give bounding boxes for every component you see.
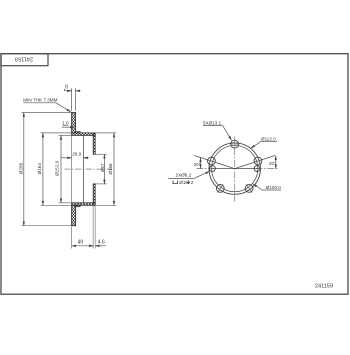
label dia 100.0 with leader	[253, 184, 282, 190]
dim 49	[72, 239, 94, 245]
svg-text:20°: 20°	[269, 161, 276, 166]
dim dia 166 (hat face)	[95, 133, 116, 205]
hat flange lower section	[72, 203, 96, 206]
left face edge line through hat interior	[71, 135, 73, 202]
centerline axis	[65, 168, 112, 170]
dim 4.6	[90, 239, 106, 245]
hat flange upper section	[72, 133, 96, 136]
svg-text:Ø258: Ø258	[19, 162, 24, 174]
note MIN THK 7.3MM with leader	[23, 98, 71, 112]
dim 26.9	[61, 152, 89, 158]
hat interior edge line	[82, 135, 84, 202]
bolt hole lower-right	[245, 185, 253, 193]
radial line 162 deg left	[194, 156, 234, 169]
svg-text:5XØ13.1: 5XØ13.1	[203, 120, 222, 125]
radial tick bottom-right hole	[246, 184, 252, 192]
svg-text:2: 2	[191, 180, 194, 185]
svg-text:Ø166: Ø166	[108, 163, 113, 175]
svg-text:Ø15: Ø15	[179, 180, 188, 185]
title box top-left	[1, 54, 48, 66]
friction ring lower section	[72, 205, 76, 225]
label 5X dia 13.1 with leader	[203, 120, 232, 140]
vertical centerline	[234, 136, 236, 201]
bolt hole upper-right	[254, 157, 262, 165]
bolt hole lower-left	[216, 185, 224, 193]
dim thickness 9	[65, 84, 81, 111]
bolt hole top	[231, 140, 239, 148]
svg-text:9: 9	[65, 84, 68, 90]
dim dia 258	[19, 113, 72, 226]
svg-text:2XØ9.2: 2XØ9.2	[176, 172, 192, 177]
dim dia 152.9	[55, 135, 72, 202]
svg-text:Ø152.9: Ø152.9	[55, 160, 60, 176]
label 2X dia 9.2 counterbore dia 15 depth 2 with leader	[168, 171, 210, 185]
svg-text:MIN THK 7.3MM: MIN THK 7.3MM	[23, 98, 57, 103]
small hole right	[254, 166, 260, 172]
svg-text:241159: 241159	[15, 55, 33, 61]
tick through top hole	[230, 143, 239, 145]
drawing frame border	[1, 54, 348, 295]
hat mounting plate lower section	[93, 184, 95, 205]
horizontal centerline	[196, 168, 278, 170]
svg-text:241159: 241159	[315, 284, 333, 290]
circle dia 100	[212, 146, 258, 192]
svg-text:Ø112.0: Ø112.0	[261, 136, 276, 141]
fillet step lower junction	[76, 205, 81, 207]
dim 1.8	[62, 121, 74, 128]
angular dim 20 deg right	[269, 156, 276, 169]
fillet step upper junction	[76, 132, 81, 134]
svg-text:20°: 20°	[194, 162, 201, 167]
svg-text:Ø164: Ø164	[37, 163, 42, 175]
svg-text:4.6: 4.6	[98, 239, 105, 245]
small hole left	[210, 166, 216, 172]
svg-text:Ø100.0: Ø100.0	[266, 185, 282, 190]
angular dim 20 deg left	[194, 158, 201, 169]
svg-text:1.8: 1.8	[62, 121, 69, 126]
dim 49 and 4.6 extension lines	[72, 206, 96, 249]
friction ring upper section	[72, 113, 76, 133]
dim dia 67 (center bore)	[95, 154, 107, 184]
bolt circle dia 112	[209, 143, 260, 194]
radial tick bottom-left hole	[217, 184, 223, 192]
hat mounting plate upper section	[93, 133, 95, 154]
svg-text:Ø67: Ø67	[100, 163, 105, 172]
label dia 112.0 with leader	[251, 136, 277, 148]
svg-text:26.9: 26.9	[72, 152, 81, 157]
svg-text:49: 49	[78, 239, 84, 245]
horizontal line through small holes	[211, 168, 260, 170]
dim dia 164	[37, 133, 72, 205]
bolt hole upper-left	[208, 157, 216, 165]
radial line 18 deg right	[235, 156, 275, 169]
